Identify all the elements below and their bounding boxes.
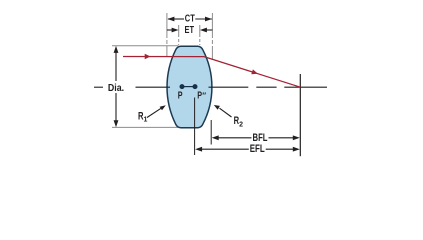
svg-text:Dia.: Dia.	[108, 83, 124, 94]
svg-text:R2: R2	[234, 115, 244, 128]
svg-text:P: P	[178, 90, 183, 101]
svg-text:R1: R1	[138, 111, 148, 124]
svg-text:CT: CT	[185, 13, 195, 24]
svg-text:P″: P″	[197, 90, 206, 101]
svg-text:BFL: BFL	[253, 132, 268, 144]
svg-text:ET: ET	[185, 25, 195, 36]
svg-text:EFL: EFL	[250, 143, 265, 155]
